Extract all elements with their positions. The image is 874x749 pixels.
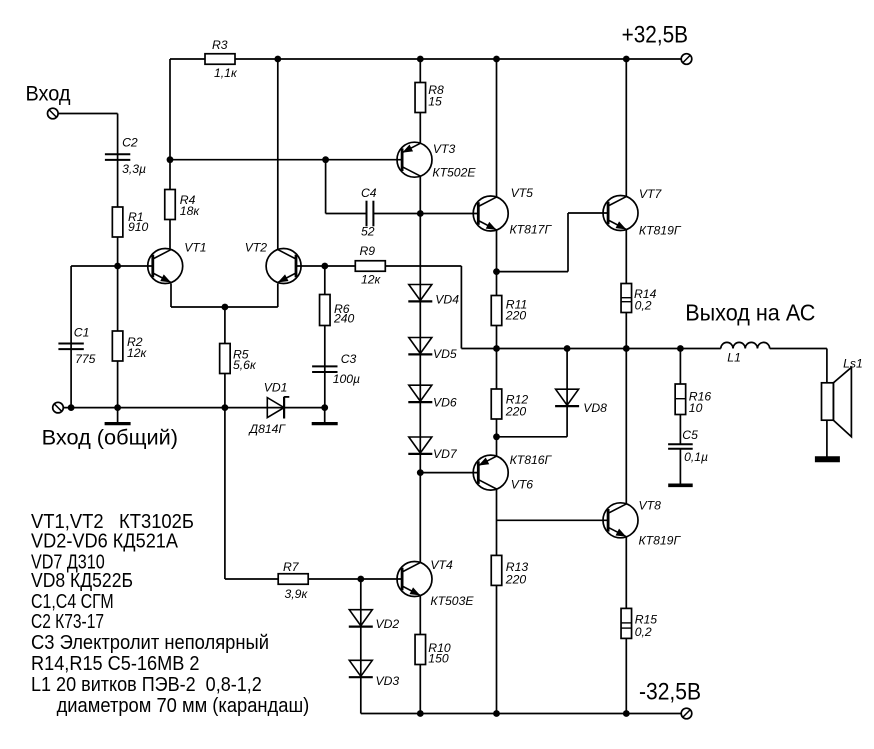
svg-text:VD4: VD4 — [435, 293, 459, 307]
svg-text:0,2: 0,2 — [635, 625, 652, 639]
svg-text:15: 15 — [428, 95, 442, 109]
svg-text:3,3µ: 3,3µ — [122, 162, 146, 176]
svg-text:VD7: VD7 — [433, 447, 458, 461]
svg-text:C2 К73-17: C2 К73-17 — [31, 611, 104, 633]
svg-text:R14,R15 С5-16МВ 2: R14,R15 С5-16МВ 2 — [31, 653, 200, 675]
svg-text:Вход (общий): Вход (общий) — [42, 427, 178, 450]
svg-text:КТ503Е: КТ503Е — [430, 594, 474, 608]
svg-text:10: 10 — [689, 401, 703, 415]
svg-text:12к: 12к — [361, 272, 382, 286]
svg-text:VT7: VT7 — [639, 187, 663, 201]
svg-text:R3: R3 — [212, 38, 228, 52]
svg-text:VT1,VT2 КТ3102Б: VT1,VT2 КТ3102Б — [31, 511, 194, 533]
svg-text:VD3: VD3 — [376, 674, 400, 688]
svg-text:3,9к: 3,9к — [285, 587, 309, 601]
svg-text:VD5: VD5 — [433, 347, 457, 361]
svg-text:КТ819Г: КТ819Г — [639, 533, 682, 547]
svg-text:C1: C1 — [74, 325, 90, 339]
svg-text:VD2-VD6 КД521А: VD2-VD6 КД521А — [31, 531, 179, 553]
svg-text:-32,5В: -32,5В — [639, 679, 701, 706]
svg-text:VT6: VT6 — [511, 478, 534, 492]
svg-text:КТ502Е: КТ502Е — [432, 165, 476, 179]
svg-text:VT2: VT2 — [245, 240, 268, 254]
svg-text:VD8 КД522Б: VD8 КД522Б — [31, 570, 133, 592]
svg-text:0,1µ: 0,1µ — [684, 450, 708, 464]
svg-text:+32,5В: +32,5В — [622, 22, 688, 49]
svg-text:VD1: VD1 — [264, 381, 288, 395]
svg-text:VT8: VT8 — [639, 498, 662, 512]
svg-text:L1: L1 — [727, 351, 741, 365]
svg-text:100µ: 100µ — [333, 372, 360, 386]
svg-text:52: 52 — [361, 224, 375, 238]
svg-text:12к: 12к — [127, 346, 148, 360]
svg-text:VD8: VD8 — [583, 401, 607, 415]
svg-text:150: 150 — [428, 652, 449, 666]
svg-text:220: 220 — [505, 309, 527, 323]
svg-text:5,6к: 5,6к — [233, 358, 257, 372]
svg-text:Выход на АС: Выход на АС — [685, 300, 815, 326]
svg-text:C4: C4 — [361, 186, 377, 200]
svg-text:18к: 18к — [180, 204, 201, 218]
svg-text:C5: C5 — [682, 428, 698, 442]
svg-text:VD2: VD2 — [376, 617, 400, 631]
svg-text:C1,C4 СГМ: C1,C4 СГМ — [31, 591, 114, 613]
svg-text:220: 220 — [505, 405, 527, 419]
svg-text:КТ817Г: КТ817Г — [510, 223, 553, 237]
svg-text:L1 20 витков ПЭВ-2 0,8-1,2: L1 20 витков ПЭВ-2 0,8-1,2 — [31, 674, 262, 696]
svg-text:VT3: VT3 — [433, 142, 456, 156]
svg-text:КТ819Г: КТ819Г — [639, 223, 682, 237]
svg-text:910: 910 — [128, 220, 149, 234]
svg-text:VT5: VT5 — [511, 186, 534, 200]
svg-text:1,1к: 1,1к — [214, 66, 238, 80]
svg-text:диаметром 70 мм (карандаш): диаметром 70 мм (карандаш) — [57, 695, 310, 717]
svg-text:VT1: VT1 — [184, 240, 206, 254]
svg-text:0,2: 0,2 — [635, 299, 652, 313]
svg-text:R9: R9 — [360, 244, 376, 258]
svg-text:C3 Электролит неполярный: C3 Электролит неполярный — [31, 632, 269, 654]
svg-text:Вход: Вход — [26, 81, 71, 105]
svg-text:КТ816Г: КТ816Г — [510, 453, 553, 467]
svg-text:C2: C2 — [122, 135, 138, 149]
svg-text:220: 220 — [505, 572, 527, 586]
svg-text:R7: R7 — [283, 560, 300, 574]
svg-text:775: 775 — [75, 352, 96, 366]
svg-text:Д814Г: Д814Г — [248, 422, 287, 436]
svg-text:VT4: VT4 — [430, 558, 453, 572]
svg-text:C3: C3 — [341, 352, 357, 366]
svg-text:240: 240 — [333, 311, 355, 325]
svg-text:VD6: VD6 — [433, 396, 457, 410]
svg-text:Ls1: Ls1 — [843, 357, 863, 371]
